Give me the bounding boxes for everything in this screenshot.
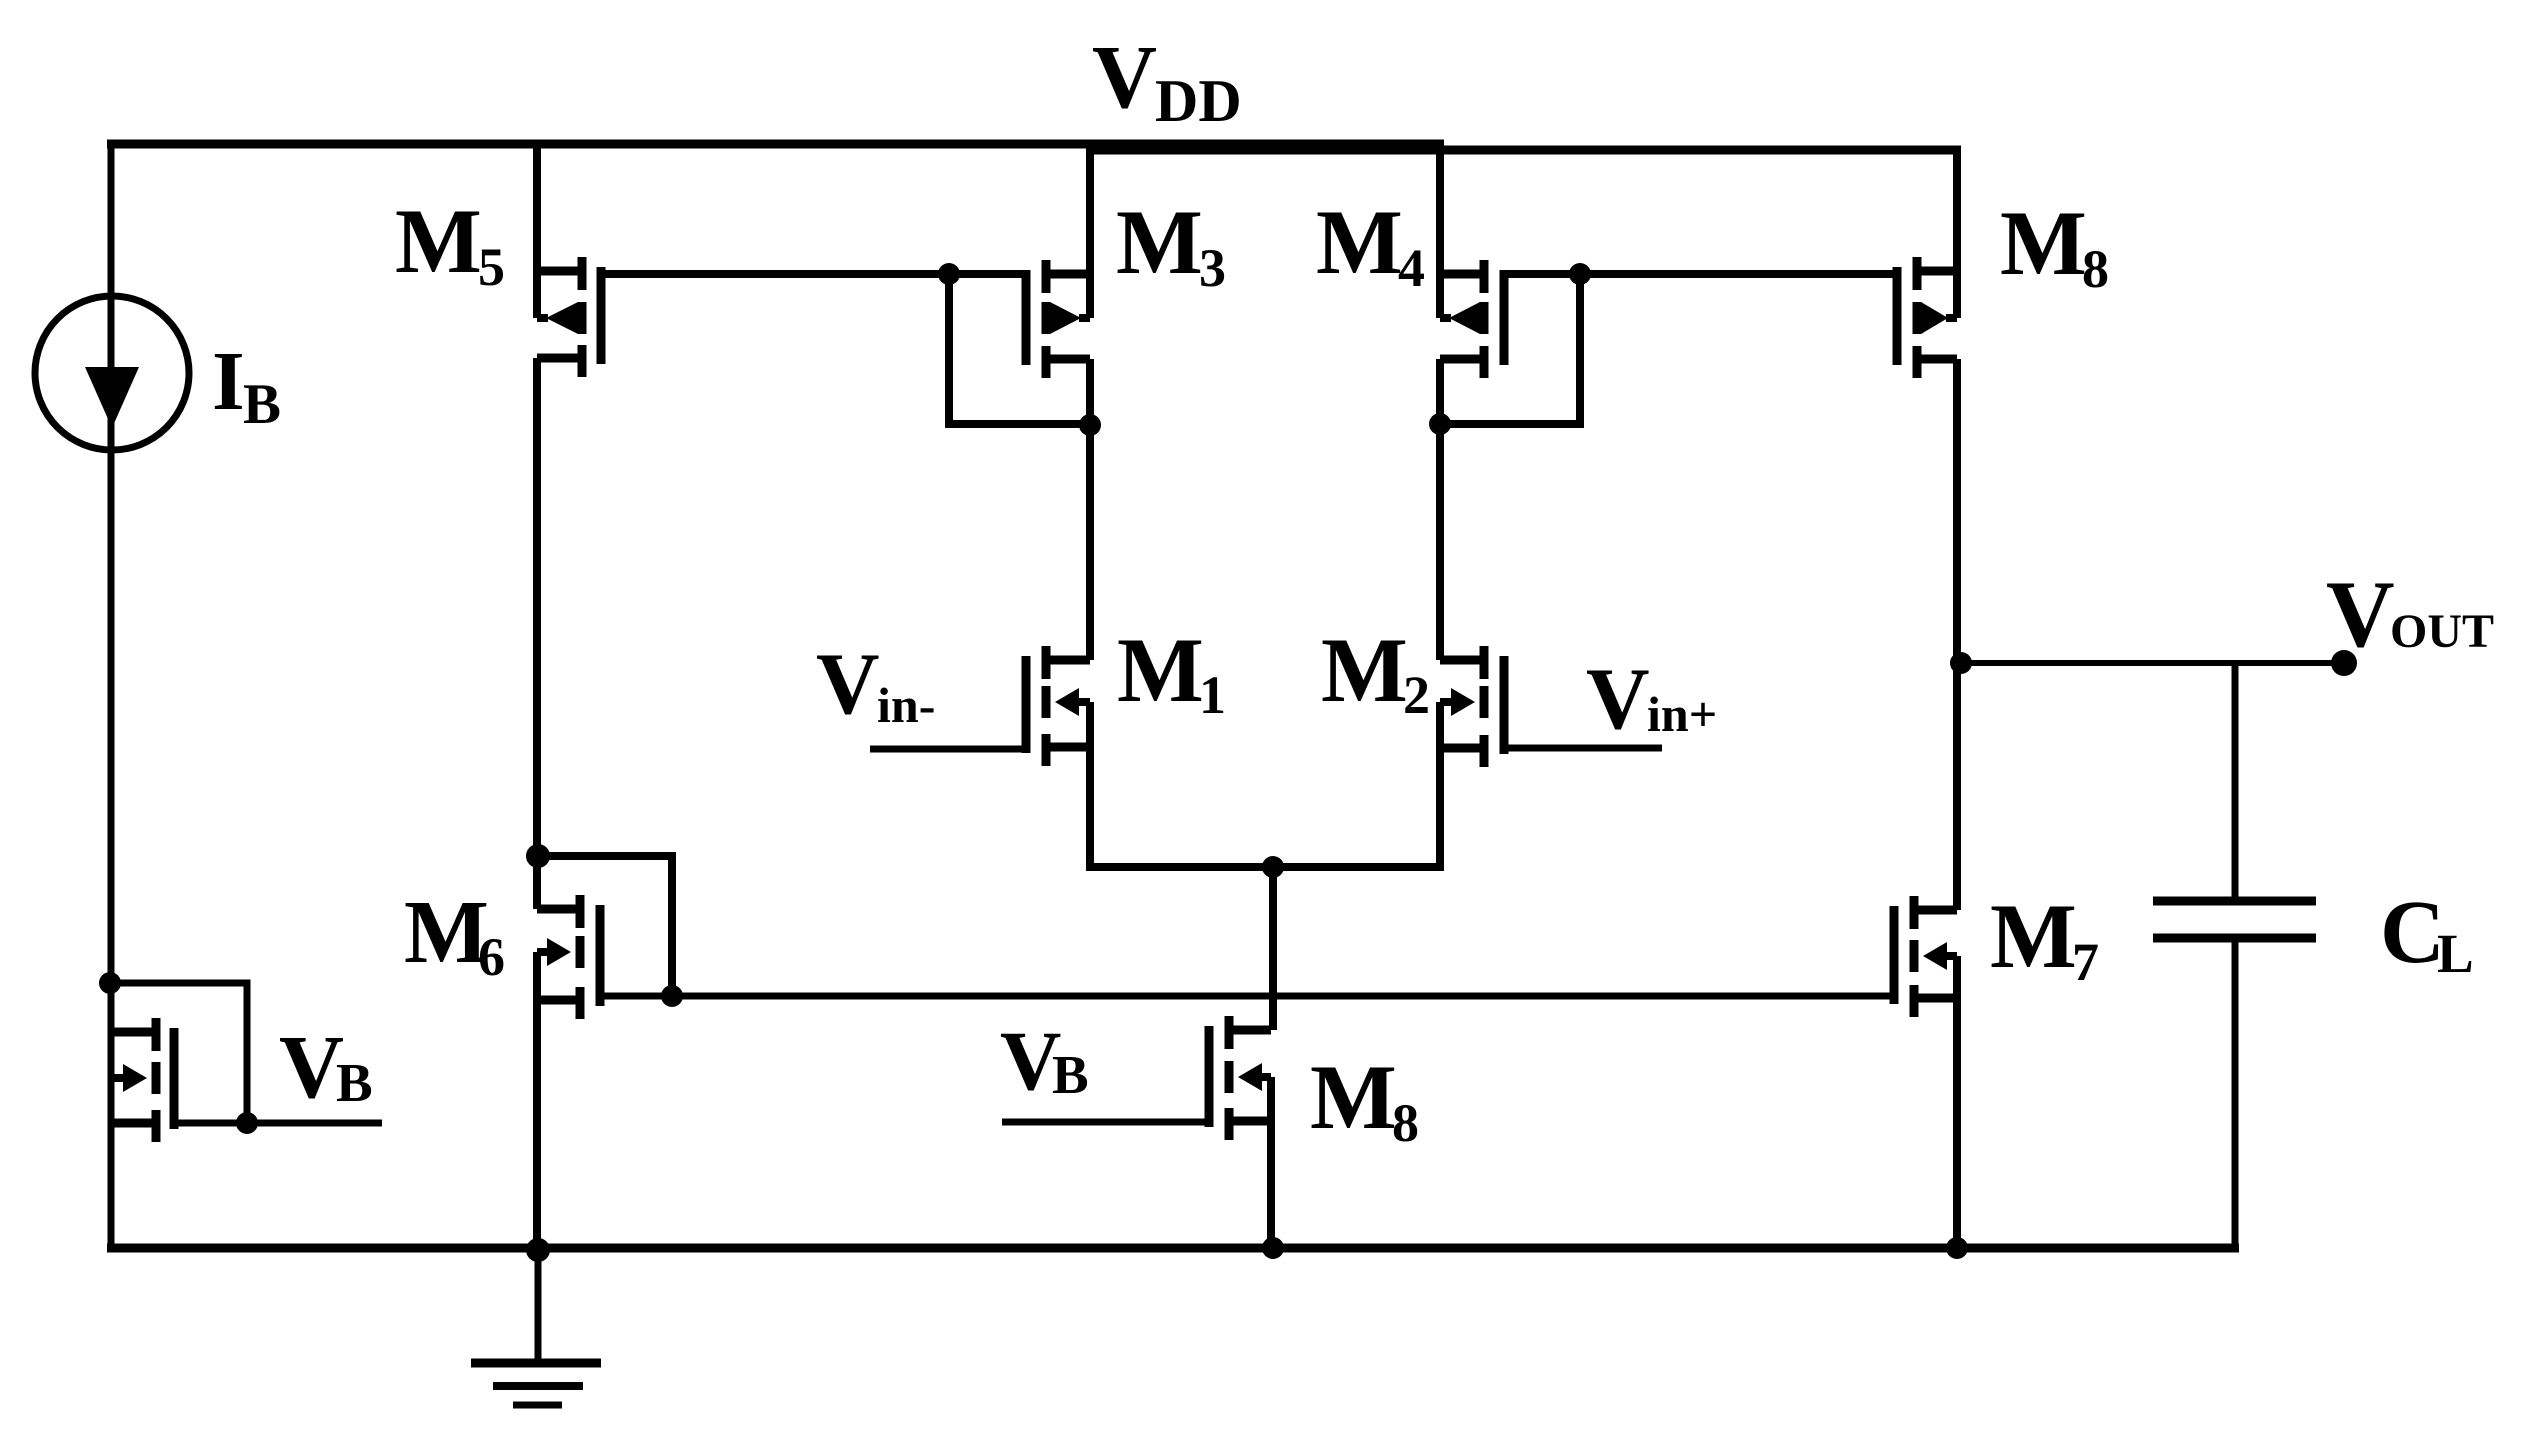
node tail (M1/M2 sources) (1262, 856, 1284, 878)
node gate tie (M4/M8) (1569, 263, 1591, 285)
wire bias line M6 gate to M7 gate (597, 993, 1896, 1000)
transistor M8 (top right) (1897, 257, 1957, 378)
label M8 (bottom middle) (1310, 1046, 1419, 1153)
wire M3 drain to M1 drain (1086, 359, 1094, 660)
wire M8 source to ground (1267, 1077, 1275, 1248)
svg-text:6: 6 (478, 927, 505, 987)
svg-text:V: V (2326, 561, 2395, 667)
wire ground rail (107, 1244, 2239, 1253)
svg-text:M: M (1116, 191, 1203, 293)
label M4 (1316, 191, 1425, 298)
svg-text:4: 4 (1398, 238, 1425, 298)
svg-text:M: M (1316, 191, 1403, 293)
label Vin+ (1586, 651, 1717, 748)
transistor M7 (1894, 896, 1957, 1017)
transistor M2 (1440, 646, 1504, 767)
svg-text:2: 2 (1403, 665, 1430, 725)
wire M4 gate-drain tie (1438, 274, 1580, 424)
wire M5 drain down to M6 (533, 358, 541, 909)
wire VDD rail (107, 144, 1961, 150)
label M5 (395, 190, 505, 297)
svg-text:7: 7 (2072, 932, 2099, 992)
svg-text:5: 5 (478, 237, 505, 297)
wire left supply branch (108, 140, 115, 1248)
wire Vin- lead (870, 746, 1028, 753)
capacitor CL (2153, 901, 2316, 938)
node M3 drain (1079, 414, 1101, 436)
transistor M3 (1026, 260, 1090, 378)
terminal VOUT (2331, 650, 2357, 676)
label M8 (top right) (2000, 192, 2109, 299)
transistor M8 (bottom middle) (1209, 1016, 1271, 1140)
label M3 (1116, 191, 1226, 298)
label VB (left) (279, 1018, 373, 1117)
svg-text:V: V (816, 636, 880, 733)
label VOUT (2326, 561, 2494, 667)
wire Vin+ lead (1502, 745, 1662, 752)
transistor M4 (1440, 260, 1504, 378)
label M7 (1990, 885, 2099, 992)
wire CL bottom lead (2232, 938, 2239, 1248)
wire M3 source to VDD (1086, 146, 1094, 318)
svg-text:B: B (1052, 1044, 1089, 1105)
label CL (2380, 883, 2474, 984)
wire M8 source to VDD (1953, 146, 1961, 318)
wire VB stub (middle) (1002, 1119, 1211, 1126)
svg-text:C: C (2380, 883, 2445, 982)
label M1 (1117, 619, 1226, 725)
node M6 gate / bias wire (661, 985, 683, 1007)
svg-text:M: M (404, 883, 489, 982)
wire M4 drain to M2 drain (1436, 359, 1444, 660)
wire M8 drain to VOUT node (1953, 359, 1961, 910)
transistor M1 (1026, 646, 1090, 766)
node gate tie (M5/M3) (938, 263, 960, 285)
wire VB stub (left) (174, 1120, 382, 1127)
wire M6 source to ground (533, 952, 541, 1248)
node ground tap (526, 1238, 550, 1262)
label Vin- (816, 636, 935, 733)
svg-text:M: M (1321, 619, 1408, 721)
wire M6 gate-drain tie (538, 856, 672, 996)
transistor VB bias (bottom left) (110, 1018, 174, 1142)
svg-text:I: I (212, 335, 245, 428)
svg-text:M: M (2000, 192, 2087, 294)
wire CL top lead (2232, 663, 2239, 901)
label M2 (1321, 619, 1430, 725)
current source IB (35, 296, 189, 450)
net label VDD (1092, 28, 1242, 134)
svg-text:M: M (1990, 885, 2077, 987)
transistor M5 (537, 257, 601, 377)
svg-text:V: V (1092, 28, 1157, 127)
svg-text:M: M (1117, 619, 1204, 721)
node M4 drain (1429, 413, 1451, 435)
svg-text:B: B (336, 1052, 373, 1113)
wire M2 source to tail node (1273, 702, 1440, 867)
svg-text:3: 3 (1199, 238, 1226, 298)
svg-text:M: M (1310, 1046, 1397, 1148)
node M5 drain / M6 drain (526, 844, 550, 868)
svg-text:OUT: OUT (2390, 605, 2494, 658)
svg-text:8: 8 (1392, 1093, 1419, 1153)
wire VOUT (1961, 660, 2344, 666)
label M6 (404, 883, 505, 987)
svg-text:L: L (2437, 923, 2474, 984)
label IB (212, 335, 281, 436)
node VOUT junction (1950, 652, 1972, 674)
wire bias transistor gate-drain tie (110, 983, 247, 1123)
node M7 source on rail (1946, 1237, 1968, 1259)
svg-text:B: B (243, 373, 281, 436)
svg-text:DD: DD (1155, 68, 1242, 134)
svg-text:V: V (279, 1018, 344, 1117)
svg-text:in+: in+ (1647, 686, 1717, 742)
node VB (left) (236, 1112, 258, 1134)
label VB (middle) (1000, 1014, 1089, 1108)
wire M4 source to VDD (1436, 146, 1444, 318)
svg-text:1: 1 (1199, 665, 1226, 725)
node left branch / bias transistor drain (99, 972, 121, 994)
svg-text:in-: in- (877, 677, 935, 733)
svg-text:V: V (1586, 651, 1650, 748)
wire tail down to M8 drain (1269, 867, 1277, 1030)
wire M5 source to VDD (533, 144, 541, 318)
wire M4 gate to M8 gate (1502, 270, 1899, 278)
svg-text:M: M (395, 190, 482, 292)
wire M5 gate to M3 gate (599, 270, 1028, 278)
wire M7 source to ground (1953, 956, 1961, 1248)
wire M3 gate-drain tie (949, 274, 1092, 424)
transistor M6 (537, 895, 600, 1019)
ground (471, 1248, 601, 1405)
svg-text:8: 8 (2082, 239, 2109, 299)
node M8 source on rail (1262, 1237, 1284, 1259)
wire M1 source to tail node (1090, 702, 1273, 867)
